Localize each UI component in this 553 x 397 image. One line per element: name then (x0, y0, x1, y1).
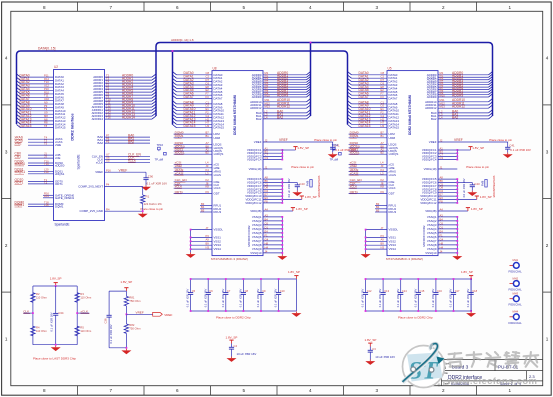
wire DQM1 to U5 (349, 137, 387, 139)
svg-text:0.1 uF X5R 16V: 0.1 uF X5R 16V (50, 312, 54, 331)
svg-text:K9: K9 (381, 190, 385, 194)
svg-text:VSSDL: VSSDL (389, 228, 399, 232)
wire RFU2 stub U8 (200, 208, 212, 210)
wire DATA8 to U8 (177, 103, 213, 105)
svg-text:Place close to pin: Place close to pin (314, 138, 337, 142)
wire BA0 from U2 (105, 136, 151, 138)
wire BA2 from U8 (263, 118, 307, 120)
svg-text:E3: E3 (265, 196, 269, 200)
wire ADDR10 from U2 (105, 106, 153, 108)
svg-text:1: 1 (508, 388, 511, 393)
svg-text:C7: C7 (227, 289, 231, 293)
wire ADDR10 from U8 (263, 101, 307, 103)
capacitor C13 (382, 279, 384, 292)
ground VSSQ U8 (277, 255, 287, 260)
wire VDDQ power U5 (457, 149, 470, 151)
wire VDDQ power U8 (282, 149, 295, 151)
svg-text:L4: L4 (381, 161, 384, 165)
svg-text:H8: H8 (440, 241, 444, 245)
wire VDDQ/FC9 U8 (263, 192, 282, 194)
wire VSSDL U8 (191, 229, 212, 231)
svg-text:ODT: ODT (389, 191, 395, 195)
wire VSS3 U5 (366, 244, 387, 246)
wire VSSQ9 U8 (263, 248, 282, 250)
svg-text:DDR2 Interface: DDR2 Interface (71, 113, 75, 140)
svg-text:B5: B5 (376, 208, 380, 212)
wire xCLK tap (77, 312, 89, 314)
svg-text:CB1: CB1 (15, 155, 22, 159)
zone tick left (2, 291, 11, 293)
wire DATA5 to U2 (21, 93, 54, 95)
svg-text:RFU3: RFU3 (389, 210, 397, 214)
svg-text:ADDR9: ADDR9 (277, 93, 288, 97)
svg-text:H8: H8 (265, 241, 269, 245)
svg-text:ADDR12: ADDR12 (425, 106, 437, 110)
svg-text:1: 1 (508, 5, 511, 10)
wire VDDQ/FC11 U5 (438, 199, 457, 201)
svg-text:VDDQ/FC12: VDDQ/FC12 (245, 201, 262, 205)
svg-text:L19: L19 (44, 170, 49, 174)
svg-text:A3: A3 (265, 213, 269, 217)
svg-text:ODT1: ODT1 (175, 190, 184, 194)
zone tick top (77, 2, 79, 11)
svg-text:TP_diff: TP_diff (155, 158, 164, 162)
wire DATA15 to U2 (21, 127, 54, 129)
wire VDDQ/FC6 U5 (438, 182, 457, 184)
wire DATA4 to U2 (21, 90, 54, 92)
svg-text:1.8V_SP: 1.8V_SP (461, 270, 473, 274)
wire DATA9 to U5 (352, 106, 388, 108)
svg-text:1.8V_SP: 1.8V_SP (297, 146, 309, 150)
wire VDDQ/FC2 U5 (438, 152, 457, 154)
wire ADDR bus drop to U8 (310, 43, 312, 117)
wire VSSQ2 U5 (438, 220, 457, 222)
svg-text:ADDR14: ADDR14 (122, 116, 135, 120)
svg-text:R1: R1 (146, 195, 150, 199)
svg-text:F2: F2 (381, 111, 385, 115)
wire xDQS1 to U8 (174, 153, 212, 155)
svg-text:0.1 uF X5R 16V: 0.1 uF X5R 16V (431, 289, 435, 308)
wire DATA3 to U5 (352, 84, 388, 86)
svg-text:0.1 uF X5R 16V: 0.1 uF X5R 16V (396, 289, 400, 308)
wire ADDR1 from U2 (105, 79, 153, 81)
memory chip U5 MT47H64M8 (387, 71, 438, 256)
svg-text:VDDL(19): VDDL(19) (249, 167, 262, 171)
wire VDDQ/FC8 U8 (263, 188, 282, 190)
node junction (142, 210, 144, 212)
svg-text:VREF: VREF (164, 313, 172, 317)
svg-text:0.1 uF X5R 16V: 0.1 uF X5R 16V (147, 181, 168, 185)
wire VSSQ rail U5 (456, 217, 458, 255)
svg-text:3: 3 (375, 388, 378, 393)
svg-text:K4: K4 (206, 168, 210, 172)
svg-text:T16: T16 (106, 116, 111, 120)
svg-text:0.1 uF X5R 16V: 0.1 uF X5R 16V (221, 289, 225, 308)
svg-text:MICRON DDR2: MICRON DDR2 (247, 225, 251, 246)
svg-text:BA2: BA2 (277, 115, 283, 119)
svg-text:H2: H2 (206, 117, 210, 121)
svg-text:R14: R14 (44, 194, 49, 198)
ground VREF cap U5 (503, 153, 513, 158)
svg-text:B7: B7 (206, 131, 210, 135)
svg-text:VDD(28): VDD(28) (425, 209, 436, 213)
svg-text:C8: C8 (206, 71, 210, 75)
svg-text:1.8V_SP: 1.8V_SP (288, 270, 300, 274)
bus ADDR[0..14] (156, 43, 493, 117)
wire ADDR11 from U5 (438, 104, 489, 106)
svg-text:U2: U2 (54, 65, 58, 69)
svg-text:D4: D4 (265, 189, 269, 193)
svg-text:xUDQS: xUDQS (214, 152, 224, 156)
power 1.8V_SP CLK network (54, 283, 58, 286)
wire VDDQ/FC1 U5 (438, 149, 457, 151)
svg-text:8: 8 (43, 388, 46, 393)
svg-text:J4: J4 (440, 249, 443, 253)
wire VSSQ6 U5 (438, 236, 457, 238)
svg-text:C3: C3 (372, 347, 376, 351)
svg-text:ADDR9: ADDR9 (452, 93, 463, 97)
svg-text:Place close to DDR2 Chip: Place close to DDR2 Chip (216, 316, 251, 320)
wire VSSQ10 U8 (263, 252, 282, 254)
svg-text:N3: N3 (381, 246, 385, 250)
svg-text:3: 3 (375, 5, 378, 10)
power 1.8V_SP 2 U8 (300, 196, 304, 199)
svg-text:J3: J3 (206, 164, 209, 168)
svg-text:1.8V_SP: 1.8V_SP (296, 207, 308, 211)
wire VDDL U5 (438, 168, 457, 170)
svg-text:FIDUCIAL: FIDUCIAL (509, 288, 523, 292)
svg-text:C3: C3 (440, 156, 444, 160)
capacitor C90 (145, 172, 147, 177)
svg-text:DATA15: DATA15 (389, 126, 400, 130)
svg-text:E1: E1 (381, 107, 385, 111)
wire CLK_EN to U8 (174, 181, 212, 183)
wire VSS4 U5 (366, 248, 387, 250)
svg-text:C6: C6 (209, 289, 213, 293)
zone tick top (210, 2, 212, 11)
power 1.8V_SP VREF divider (124, 288, 128, 291)
wire ADDR11 from U2 (105, 109, 153, 111)
svg-text:DDR2 64Mx8 MT47H64M8: DDR2 64Mx8 MT47H64M8 (233, 95, 237, 135)
svg-text:G1: G1 (206, 114, 210, 118)
wire VREF from U5 (438, 141, 508, 143)
svg-text:0.1 uF X5R 16V: 0.1 uF X5R 16V (510, 148, 531, 152)
wire ADDR6 from U2 (105, 94, 153, 96)
wire cap bank bottom rail (191, 310, 297, 312)
svg-text:UDM: UDM (214, 136, 221, 140)
svg-text:L4: L4 (265, 115, 268, 119)
svg-text:PM8: PM8 (480, 180, 484, 186)
svg-text:UDM: UDM (389, 136, 396, 140)
svg-text:BA2: BA2 (128, 140, 134, 144)
svg-text:C36: C36 (103, 318, 107, 323)
capacitor C9 (260, 279, 262, 292)
wire ADDR13 from U2 (105, 115, 153, 117)
wire BA0 from U8 (263, 112, 307, 114)
svg-text:4.0 uF X5R 16V: 4.0 uF X5R 16V (287, 178, 291, 197)
svg-text:VREF: VREF (429, 140, 437, 144)
wire DATA5 to U8 (177, 91, 213, 93)
svg-text:DDR2 64Mx8 MT47H64M8: DDR2 64Mx8 MT47H64M8 (408, 95, 412, 135)
svg-text:E7: E7 (440, 193, 444, 197)
FPGA block U2 DDR2 Interface (54, 70, 105, 221)
wire R14 to U2 (43, 197, 54, 199)
wire VSS3 U8 (191, 244, 212, 246)
svg-text:T5: T5 (44, 142, 48, 146)
svg-text:ODT: ODT (214, 191, 220, 195)
svg-text:Place close to pin: Place close to pin (141, 207, 164, 211)
wire xRAS to U2 (28, 138, 54, 140)
wire DATA9 to U8 (177, 106, 213, 108)
wire DATA1 to U5 (352, 77, 388, 79)
svg-text:C8: C8 (381, 71, 385, 75)
wire DATA0 to U2 (21, 76, 54, 78)
wire DQS1 to U5 (349, 150, 387, 152)
wire VDDQ/FC4 U8 (263, 159, 282, 161)
svg-text:4: 4 (5, 56, 8, 61)
svg-text:DATA15: DATA15 (184, 124, 196, 128)
wire cap bank ground rail (470, 279, 472, 311)
svg-text:1.8V_SP: 1.8V_SP (472, 146, 484, 150)
svg-text:1.8V_SP: 1.8V_SP (480, 195, 492, 199)
wire xCASI to U5 (349, 174, 387, 176)
svg-text:B9: B9 (381, 242, 385, 246)
svg-text:D8: D8 (440, 186, 444, 190)
wire BA1 from U8 (263, 115, 307, 117)
svg-text:DQM1: DQM1 (55, 205, 64, 209)
wire VSS4 U8 (191, 248, 212, 250)
svg-text:R82: R82 (129, 323, 134, 327)
svg-text:VREF: VREF (254, 140, 262, 144)
wire DATA8 to U2 (21, 103, 54, 105)
wire DATA2 to U2 (21, 83, 54, 85)
wire VDDQ/FC6 U8 (263, 182, 282, 184)
svg-text:0.1 uF X5R 16V: 0.1 uF X5R 16V (256, 289, 260, 308)
wire VDDQ/FC2 U8 (263, 152, 282, 154)
wire VSS2 U8 (191, 240, 212, 242)
svg-text:xUDQS: xUDQS (389, 152, 399, 156)
wire DATA0 to U5 (352, 74, 388, 76)
svg-text:R4: R4 (36, 326, 40, 330)
wire VSSQ1 U5 (438, 216, 457, 218)
wire BA1 from U5 (438, 115, 489, 117)
wire VDDQ/FC1 U8 (263, 149, 282, 151)
svg-text:xCLK: xCLK (350, 185, 359, 189)
ground VDDQ cap U8 (292, 191, 302, 196)
svg-text:P5: P5 (106, 140, 110, 144)
ground cap bank (466, 312, 476, 317)
svg-text:C16: C16 (437, 289, 442, 293)
svg-text:U5: U5 (388, 66, 392, 70)
wire ODT0 to U2 (28, 180, 54, 182)
wire ADDR0 from U5 (438, 74, 489, 76)
wire DATA3 to U8 (177, 84, 213, 86)
zone tick bottom (476, 386, 478, 396)
svg-text:J7: J7 (381, 226, 384, 230)
wire VDD U8 (263, 210, 293, 212)
wire VDDQ/FC3 U5 (438, 155, 457, 157)
svg-text:Spartan3E: Spartan3E (77, 154, 81, 169)
mounting pad PM8 U5 (485, 180, 487, 188)
svg-text:MT47H64M8CF-3 (D9HNZ): MT47H64M8CF-3 (D9HNZ) (211, 257, 248, 261)
svg-text:COMP_2V5_NEXT: COMP_2V5_NEXT (78, 185, 103, 189)
wire cap bank top rail (366, 278, 472, 280)
wire VSSQ3 U5 (438, 224, 457, 226)
ground cap bank (291, 312, 301, 317)
wire xDQS1 to U2 (28, 173, 54, 175)
svg-text:F7: F7 (381, 92, 385, 96)
wire RFU3 stub U5 (375, 211, 387, 213)
resistor R82 (124, 324, 128, 334)
wire xCLK to U5 (349, 187, 387, 189)
power 1.8V_SP 2 U5 (475, 196, 479, 199)
ground CLK termination (51, 346, 61, 351)
svg-text:DATA7: DATA7 (184, 95, 194, 99)
svg-text:xWE: xWE (15, 142, 23, 146)
svg-text:xCAS: xCAS (214, 173, 221, 177)
wire to COMP_2V5_GND (142, 204, 144, 212)
wire DQM0 to U2 (28, 203, 54, 205)
wire DATA9 to U2 (21, 106, 54, 108)
svg-text:ADDR9: ADDR9 (427, 95, 437, 99)
svg-text:VREF: VREF (454, 138, 463, 142)
svg-text:C5: C5 (265, 182, 269, 186)
wire ADDR5 from U2 (105, 91, 153, 93)
mounting pad PM8 U8 (310, 180, 312, 188)
fiducial MH3 (510, 298, 514, 300)
wire DATA1 to U2 (21, 79, 54, 81)
svg-text:VREF: VREF (119, 168, 128, 172)
wire DATA bus drop to U8 (172, 51, 174, 125)
svg-text:BA2: BA2 (431, 117, 437, 121)
wire DATA7 to U2 (21, 100, 54, 102)
svg-text:DATA15: DATA15 (214, 126, 225, 130)
test point TP square 2 U5 (339, 152, 342, 155)
svg-text:FIDUCIAL: FIDUCIAL (509, 321, 523, 325)
wire DATA4 to U8 (177, 87, 213, 89)
wire RFU1 stub U8 (200, 205, 212, 207)
svg-text:A9: A9 (381, 238, 385, 242)
wire VDDQ/FC5 U8 (263, 178, 282, 180)
wire DATA6 to U5 (352, 94, 388, 96)
wire ODT1 to U2 (28, 183, 54, 185)
svg-text:J3: J3 (44, 155, 47, 159)
svg-text:F7: F7 (206, 92, 210, 96)
svg-text:C15: C15 (420, 289, 425, 293)
svg-text:H7: H7 (381, 121, 385, 125)
svg-text:C2: C2 (381, 75, 385, 79)
wire VSSQ3 U8 (263, 224, 282, 226)
svg-text:VSSQ10: VSSQ10 (425, 251, 437, 255)
power 1.8V_SP U5 (468, 147, 472, 150)
wire ADDR4 from U8 (263, 84, 307, 86)
svg-text:D1: D1 (265, 225, 269, 229)
svg-text:110 Ohm: 110 Ohm (80, 295, 92, 299)
test point TP square 1 U5 (333, 147, 336, 150)
wire DATA10 to U5 (352, 110, 388, 112)
wire DQM1 to U2 (28, 206, 54, 208)
svg-text:MH1: MH1 (513, 258, 519, 262)
svg-text:C6: C6 (440, 221, 444, 225)
zone tick right (543, 198, 552, 200)
wire ADDR2 from U5 (438, 79, 489, 81)
svg-text:E4: E4 (440, 229, 444, 233)
svg-text:VDDQ/FC4: VDDQ/FC4 (247, 158, 262, 162)
svg-text:0.1 uF X5R 16V: 0.1 uF X5R 16V (378, 289, 382, 308)
svg-text:VREF: VREF (279, 138, 288, 142)
svg-text:C6: C6 (265, 221, 269, 225)
capacitor C12 (365, 279, 367, 292)
wire ADDR6 from U8 (263, 89, 307, 91)
svg-text:750 Ohm: 750 Ohm (129, 299, 141, 303)
node C34 bottom junction (55, 344, 57, 346)
wire CLK to U8 (174, 184, 212, 186)
wire VREF from U2 (105, 171, 147, 173)
svg-text:A3: A3 (440, 213, 444, 217)
svg-text:BA2: BA2 (98, 141, 104, 145)
svg-text:K9: K9 (206, 190, 210, 194)
wire VREF divider left rail (108, 291, 110, 315)
wire VDDQ/FC9 U5 (438, 192, 457, 194)
svg-text:H2: H2 (381, 117, 385, 121)
svg-text:1.8V_SP: 1.8V_SP (120, 280, 132, 284)
svg-text:G4: G4 (440, 237, 444, 241)
svg-text:D1: D1 (440, 225, 444, 229)
svg-text:Place close to DDR2 Chip: Place close to DDR2 Chip (398, 316, 433, 320)
wire R16 to U2 (43, 194, 54, 196)
svg-text:VSS4: VSS4 (389, 247, 397, 251)
svg-text:F3: F3 (206, 95, 210, 99)
wire xCAS to U2 (28, 141, 54, 143)
svg-text:VDDQ/FC12: VDDQ/FC12 (420, 201, 437, 205)
svg-text:D3: D3 (206, 81, 210, 85)
svg-text:G1: G1 (381, 114, 385, 118)
wire VDDQ/FC5 U5 (438, 178, 457, 180)
svg-text:L4: L4 (440, 115, 443, 119)
node DATA bus junction (172, 50, 174, 52)
wire VDDQ rail1 U5 (456, 150, 458, 160)
svg-text:MH4: MH4 (513, 310, 519, 314)
wire VDDQ rail2 U5 (456, 179, 458, 203)
svg-text:DATA7: DATA7 (389, 97, 398, 101)
svg-text:G4: G4 (265, 237, 269, 241)
wire ADDR10 from U5 (438, 101, 489, 103)
svg-text:5: 5 (242, 388, 245, 393)
svg-text:F8: F8 (265, 199, 269, 203)
svg-text:D2: D2 (381, 104, 385, 108)
zone tick bottom (409, 386, 411, 396)
zone tick left (2, 198, 11, 200)
wire VSSDL U5 (366, 229, 387, 231)
zone tick bottom (343, 386, 345, 396)
svg-text:A8: A8 (440, 176, 444, 180)
svg-text:4: 4 (309, 5, 312, 10)
wire xWE to U2 (28, 144, 54, 146)
wire ADDR9 from U5 (438, 96, 489, 98)
wire VSSQ5 U5 (438, 232, 457, 234)
zone tick top (143, 2, 145, 11)
watermark elecfans brush text (448, 353, 463, 367)
svg-text:Place close to pin: Place close to pin (291, 165, 314, 169)
wire ADDR9 from U8 (263, 96, 307, 98)
fiducial MH2 (510, 283, 514, 285)
ground VSS U8 (186, 253, 196, 258)
svg-text:T2: T2 (44, 180, 48, 184)
wire BA0 from U5 (438, 112, 489, 114)
svg-text:P3: P3 (206, 234, 210, 238)
svg-text:0.1 uF X5R 16V: 0.1 uF X5R 16V (239, 289, 243, 308)
svg-text:B4: B4 (440, 217, 444, 221)
